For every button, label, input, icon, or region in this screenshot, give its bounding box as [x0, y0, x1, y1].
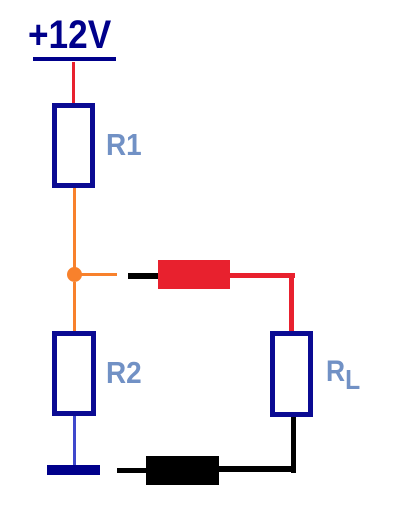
resistor R1	[52, 103, 95, 188]
black return wire left stub	[117, 468, 147, 473]
node +12V label	[28, 13, 112, 58]
wire +12V to R1 (red)	[72, 62, 75, 105]
label R2	[106, 355, 142, 391]
resistor RL	[270, 331, 313, 417]
black probe stub wire	[128, 273, 159, 279]
wire red probe to RL corner (red horizontal)	[229, 273, 295, 278]
label RL	[326, 355, 360, 396]
wire R2 to ground (royal blue)	[73, 416, 76, 465]
wire node A to R2 (orange)	[73, 282, 76, 332]
node A junction dot	[67, 267, 82, 282]
wire corner down to RL (red vertical)	[289, 273, 294, 331]
+12V supply rail bar	[33, 57, 116, 61]
label R1	[106, 127, 142, 163]
wire R1 to node A (orange)	[73, 188, 76, 269]
ground bar	[47, 465, 100, 475]
resistor R2	[52, 331, 96, 416]
red probe body	[158, 260, 230, 289]
black return wire right segment	[219, 466, 296, 472]
wire RL down to return (black vertical)	[291, 417, 296, 473]
wire node A stub right (orange)	[81, 273, 117, 276]
black probe body	[146, 456, 219, 485]
